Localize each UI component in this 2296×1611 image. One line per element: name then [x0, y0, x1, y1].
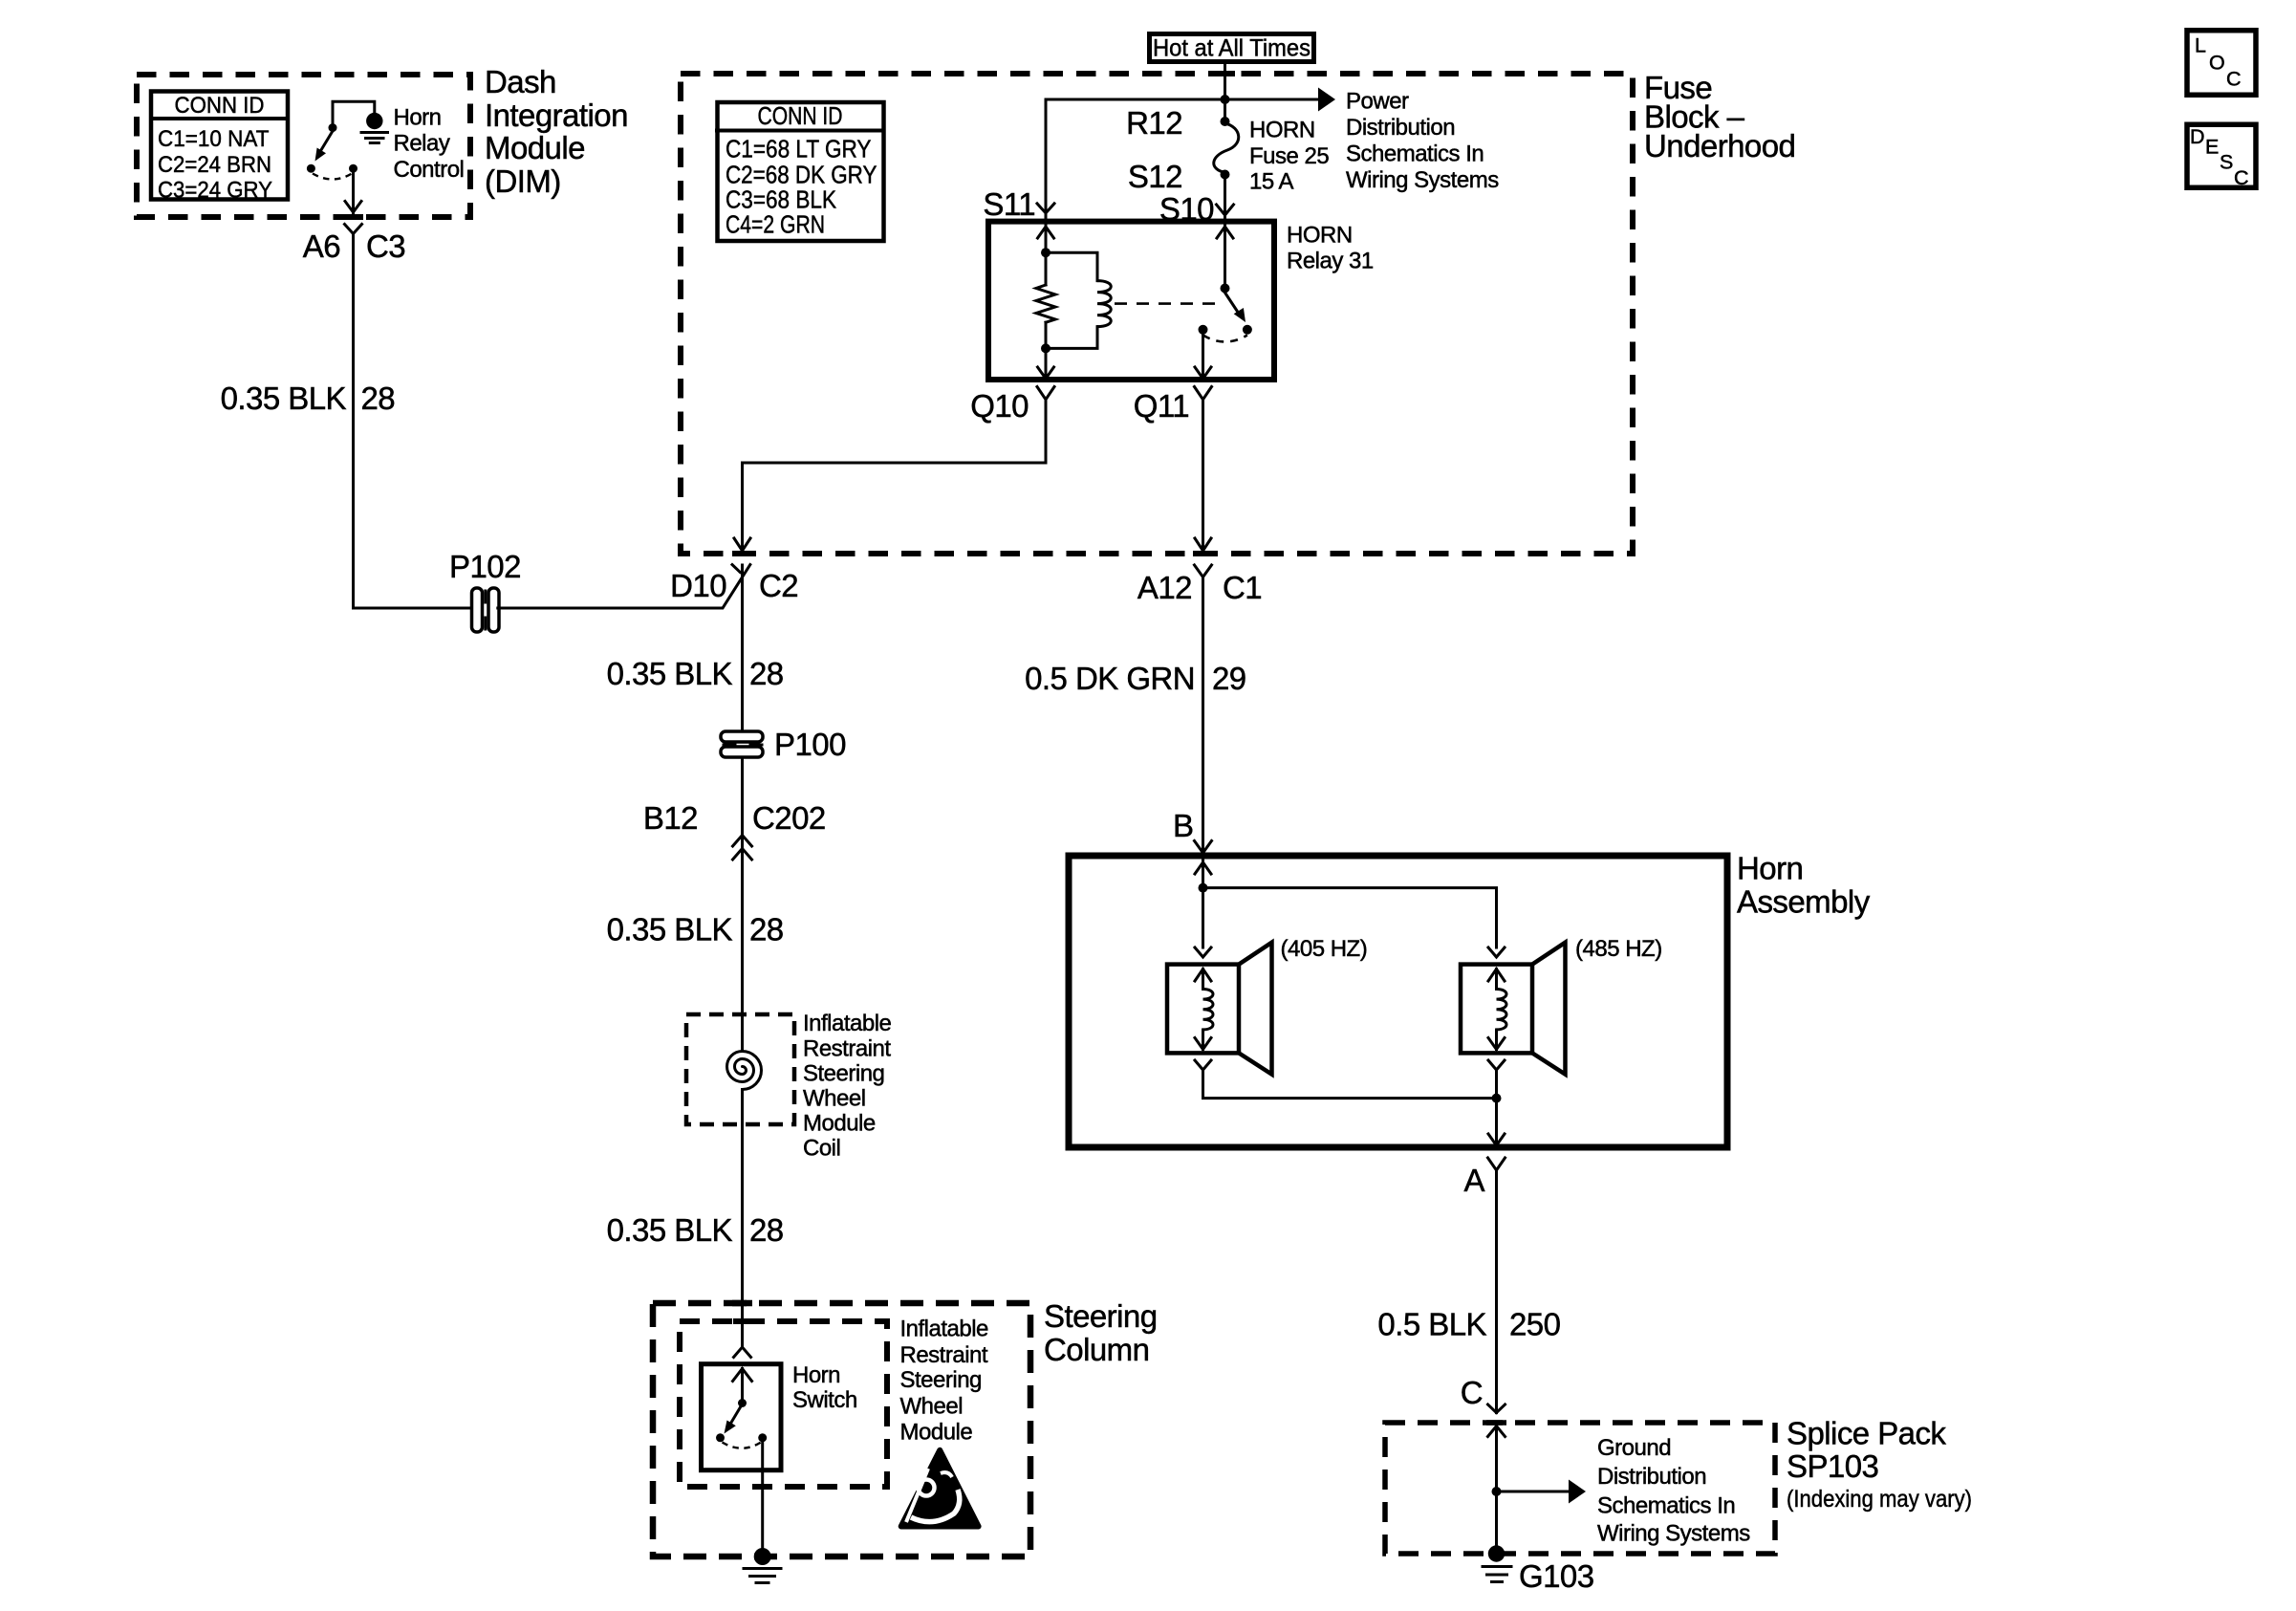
svg-text:250: 250: [1509, 1307, 1561, 1342]
svg-text:Wheel: Wheel: [803, 1086, 866, 1112]
pin label D10: [670, 568, 726, 603]
pin label A: [1464, 1163, 1485, 1198]
svg-text:Module: Module: [803, 1111, 876, 1137]
label: Horn Assembly: [1737, 851, 1871, 920]
svg-text:L: L: [2195, 34, 2206, 57]
wire: horn switch to ground G: [761, 1442, 764, 1549]
svg-text:Steering: Steering: [1044, 1298, 1158, 1334]
svg-text:R12: R12: [1126, 105, 1182, 141]
svg-text:A6: A6: [303, 229, 340, 264]
label: Dash Integration Module (DIM): [485, 64, 628, 199]
svg-text:Steering: Steering: [900, 1367, 982, 1393]
wire: arrow to Ground Distribution Schematics: [1497, 1480, 1587, 1504]
connector: left horn feed Y: [1195, 947, 1211, 957]
connector: Q10 Y symbol: [1037, 387, 1054, 400]
wire: DIM switch output to pin A6: [345, 173, 361, 213]
resistor: relay internal resistor: [1036, 285, 1055, 322]
pin label C: [1461, 1375, 1483, 1410]
svg-text:Assembly: Assembly: [1737, 884, 1871, 920]
svg-text:28: 28: [749, 656, 784, 691]
inductor: relay coil winding: [1046, 252, 1111, 348]
wire: 0.5 BLK 250 from pin A to splice pack: [1495, 1170, 1498, 1413]
label: Fuse Block - Underhood: [1644, 70, 1795, 163]
icon: SRS airbag warning triangle: [901, 1450, 979, 1527]
svg-text:Distribution: Distribution: [1346, 115, 1455, 141]
svg-text:C: C: [2234, 166, 2249, 189]
wire: relay coil branch upper: [1045, 222, 1048, 285]
svg-text:D10: D10: [670, 568, 726, 603]
svg-text:28: 28: [749, 1212, 784, 1248]
relay K31: HORN Relay 31 box: [988, 222, 1274, 380]
svg-text:D: D: [2190, 125, 2205, 148]
svg-text:Schematics In: Schematics In: [1597, 1493, 1735, 1519]
ground G103: splice pack ground: [1483, 1545, 1511, 1581]
label: P102: [449, 549, 521, 584]
svg-text:Ground: Ground: [1597, 1435, 1671, 1461]
svg-text:E: E: [2205, 136, 2219, 159]
junction: feed node at bus: [1221, 95, 1230, 104]
svg-text:Horn: Horn: [1737, 851, 1803, 886]
svg-text:HORN: HORN: [1249, 118, 1315, 143]
svg-text:0.35 BLK: 0.35 BLK: [607, 656, 733, 691]
wire: right horn return through node out pin A: [1488, 1070, 1505, 1146]
svg-text:(485 HZ): (485 HZ): [1575, 936, 1662, 962]
module box: Dash Integration Module (DIM) dashed outline: [137, 75, 470, 217]
wire label: 0.35 BLK 28 (coil to horn switch segment): [607, 1212, 784, 1248]
label: Ground Distribution Schematics In Wiring Systems: [1597, 1435, 1750, 1547]
svg-text:Column: Column: [1044, 1332, 1149, 1367]
connector: left horn return Y: [1195, 1060, 1211, 1070]
wire: dash patches at border crossings: [343, 74, 1506, 1487]
wire label: 0.35 BLK 28 (C202 to coil segment): [607, 912, 784, 947]
svg-text:C202: C202: [752, 800, 826, 836]
wire: relay common contact to Q11: [1195, 334, 1211, 379]
svg-text:B12: B12: [643, 800, 698, 836]
svg-text:C4=2 GRN: C4=2 GRN: [726, 210, 825, 239]
connector: horn assembly pin A Y symbol: [1488, 1158, 1505, 1170]
power tag: Hot at All Times: [1150, 34, 1314, 62]
wire: P100 down through C202 to steering wheel coil: [741, 757, 744, 1051]
label: P100: [774, 727, 846, 762]
svg-text:C: C: [2226, 68, 2242, 91]
connector: S11 Y symbol: [1037, 204, 1054, 213]
svg-text:SP103: SP103: [1787, 1448, 1878, 1484]
svg-text:(Indexing may vary): (Indexing may vary): [1787, 1486, 1972, 1513]
pin label B12: [643, 800, 698, 836]
svg-text:Horn: Horn: [394, 105, 442, 131]
wire label: 0.35 BLK 28 (A6 to D10 segment): [221, 381, 395, 416]
junction: horn return common node: [1492, 1094, 1502, 1103]
coil: clockspring spiral: [727, 1052, 762, 1090]
svg-text:Restraint: Restraint: [803, 1036, 891, 1062]
svg-text:Hot at All Times: Hot at All Times: [1153, 35, 1310, 62]
svg-text:C1=10 NAT: C1=10 NAT: [158, 126, 270, 152]
label: Horn Relay Control: [394, 105, 465, 183]
connector: horn assembly pin B Y symbol: [1195, 841, 1212, 854]
pin label S11: [983, 186, 1035, 222]
pin label A6: [303, 229, 340, 264]
pin label B: [1173, 808, 1193, 843]
connector: C202 double chevron symbol: [733, 836, 752, 860]
ground: DIM internal ground: [361, 113, 388, 143]
label: HORN Relay 31: [1287, 223, 1374, 274]
connector: D10 / C2 Y symbol: [732, 565, 740, 573]
wire: pin B into horn junction: [1195, 853, 1211, 947]
svg-text:Switch: Switch: [792, 1387, 857, 1413]
svg-text:0.5 BLK: 0.5 BLK: [1377, 1307, 1486, 1342]
pin label S10: [1159, 191, 1214, 227]
pin label C202: [752, 800, 826, 836]
svg-text:Module: Module: [900, 1419, 973, 1445]
label: Steering Column: [1044, 1298, 1158, 1367]
svg-text:28: 28: [749, 912, 784, 947]
svg-text:C3=24 GRY: C3=24 GRY: [158, 178, 272, 204]
switch: horn relay control driver in DIM: [307, 101, 375, 179]
svg-text:CONN ID: CONN ID: [758, 101, 843, 130]
svg-text:Coil: Coil: [803, 1136, 840, 1162]
svg-text:Inflatable: Inflatable: [803, 1011, 892, 1036]
label: Power Distribution Schematics In Wiring Systems: [1346, 89, 1499, 194]
wire: P102 to D10 junction with diagonal lead: [498, 565, 750, 608]
connector: Q11 Y symbol: [1195, 387, 1212, 400]
svg-text:15 A: 15 A: [1249, 168, 1294, 194]
connector: S10 Y symbol: [1217, 205, 1234, 215]
junction: coil top node: [1041, 248, 1051, 257]
svg-text:Splice Pack: Splice Pack: [1787, 1416, 1946, 1451]
wire: Q10 down, left and out of fuse block at D10: [734, 400, 1046, 551]
value label: HORN Fuse 25 15 A: [1249, 118, 1329, 195]
svg-text:0.5 DK GRN: 0.5 DK GRN: [1025, 661, 1195, 696]
svg-text:29: 29: [1212, 661, 1246, 696]
pin label C2: [759, 568, 798, 603]
component box: Inflatable Restraint Steering Wheel Module dashed outline: [680, 1321, 887, 1487]
value label: (405 HZ): [1281, 936, 1368, 962]
svg-text:(DIM): (DIM): [485, 163, 561, 199]
svg-text:(405 HZ): (405 HZ): [1281, 936, 1368, 962]
arrow: coil feed entering relay: [1038, 227, 1054, 238]
svg-text:S12: S12: [1128, 159, 1182, 194]
wire: relay coil return to Q10: [1038, 367, 1054, 379]
svg-text:C2=24 BRN: C2=24 BRN: [158, 152, 271, 178]
link: relay actuation dashed line: [1115, 302, 1221, 305]
svg-text:Wheel: Wheel: [900, 1394, 964, 1420]
label: G103: [1519, 1558, 1594, 1594]
svg-text:Module: Module: [485, 130, 585, 165]
pin label R12: [1126, 105, 1182, 141]
wire: Q11 down and out of fuse block at A12: [1195, 400, 1211, 551]
junction: coil bottom node: [1041, 343, 1051, 353]
table: CONN ID (fuse block connectors): [715, 101, 884, 241]
svg-text:B: B: [1173, 808, 1193, 843]
svg-text:28: 28: [361, 381, 396, 416]
svg-text:Q11: Q11: [1134, 388, 1189, 424]
svg-text:Control: Control: [394, 157, 465, 183]
svg-text:0.35 BLK: 0.35 BLK: [607, 912, 733, 947]
connector: A12 / C1 Y symbol: [1195, 565, 1212, 577]
label: Splice Pack SP103 (Indexing may vary): [1787, 1416, 1972, 1513]
connector P100: in-line connector pass-through: [721, 731, 763, 757]
value label: (485 HZ): [1575, 936, 1662, 962]
svg-text:Schematics In: Schematics In: [1346, 142, 1484, 167]
svg-text:P102: P102: [449, 549, 521, 584]
svg-text:C: C: [1461, 1375, 1483, 1410]
svg-text:Power: Power: [1346, 89, 1409, 115]
svg-text:HORN: HORN: [1287, 223, 1353, 249]
svg-text:S: S: [2220, 151, 2233, 174]
wire: split to right horn: [1203, 888, 1497, 947]
switch box: Horn Switch: [702, 1364, 782, 1470]
legend box: LOC: [2187, 31, 2256, 96]
pin label C3: [366, 229, 405, 264]
wire: bus to S11 branch and arrow to power distribution: [1046, 88, 1335, 112]
wire: pin C into splice bus: [1488, 1426, 1505, 1550]
pin label Q11: [1134, 388, 1189, 424]
svg-text:CONN ID: CONN ID: [175, 93, 265, 119]
svg-text:C1=68 LT GRY: C1=68 LT GRY: [726, 135, 872, 163]
svg-text:Underhood: Underhood: [1644, 128, 1795, 163]
svg-text:Horn: Horn: [792, 1362, 840, 1388]
pin label A12: [1137, 570, 1192, 605]
wire: resistor bottom to coil bottom node: [1045, 322, 1048, 380]
svg-text:C2: C2: [759, 568, 798, 603]
label: Inflatable Restraint Steering Wheel Module Coil: [803, 1011, 892, 1162]
pin label C1: [1223, 570, 1262, 605]
fuse F25: HORN Fuse 25 15 A: [1214, 117, 1239, 180]
svg-text:G103: G103: [1519, 1558, 1594, 1594]
connector: right horn return Y: [1488, 1060, 1505, 1070]
svg-text:Relay 31: Relay 31: [1287, 249, 1374, 274]
connector: splice pack pin C Y symbol: [1488, 1404, 1505, 1413]
connector: right horn feed Y: [1488, 947, 1505, 957]
svg-text:A: A: [1464, 1163, 1485, 1198]
wire: left horn return to common node: [1203, 1070, 1497, 1099]
horn: right horn (485 HZ): [1461, 943, 1566, 1075]
svg-text:Wiring Systems: Wiring Systems: [1346, 167, 1499, 193]
wire: bus down to relay coil S11: [1045, 99, 1048, 222]
table: CONN ID (DIM connectors): [149, 92, 288, 204]
component box: Inflatable Restraint Steering Wheel Module Coil dashed outline: [686, 1014, 794, 1124]
horn: left horn (405 HZ): [1167, 943, 1272, 1075]
wire: 0.35 BLK 28 from A6 down and right to P102: [354, 234, 473, 609]
module box: Splice Pack SP103 dashed outline: [1385, 1423, 1775, 1554]
wire: 0.35 BLK 28 coil to horn switch: [734, 1090, 751, 1358]
wire: fuse output to relay switch S10: [1224, 175, 1226, 222]
switch: horn switch contacts: [716, 1369, 767, 1448]
ground: steering column ground: [744, 1548, 781, 1583]
svg-text:C1: C1: [1223, 570, 1262, 605]
wire label: 0.5 BLK 250: [1377, 1307, 1560, 1342]
svg-text:0.35 BLK: 0.35 BLK: [607, 1212, 733, 1248]
svg-text:Inflatable: Inflatable: [900, 1317, 989, 1342]
svg-text:P100: P100: [774, 727, 846, 762]
label: Inflatable Restraint Steering Wheel Module: [900, 1317, 989, 1446]
svg-text:Integration: Integration: [485, 98, 628, 133]
svg-text:Wiring Systems: Wiring Systems: [1597, 1521, 1750, 1547]
svg-text:0.35 BLK: 0.35 BLK: [221, 381, 347, 416]
connector P102: in-line connector on horn relay control wire: [472, 588, 500, 632]
svg-text:Relay: Relay: [394, 131, 450, 157]
svg-text:Dash: Dash: [485, 64, 556, 99]
svg-text:A12: A12: [1137, 570, 1192, 605]
svg-text:O: O: [2209, 52, 2225, 75]
svg-text:C3: C3: [366, 229, 405, 264]
connector: A6 / C3 Y symbol: [345, 225, 362, 234]
wire: battery feed from Hot at All Times into fuse block: [1224, 64, 1226, 118]
junction: horn feed split node: [1199, 883, 1208, 893]
wire: 0.35 BLK 28 from C2 down to P100: [741, 565, 744, 732]
switch: relay contact arm: [1199, 222, 1252, 342]
label: Horn Switch: [792, 1362, 857, 1413]
module box: Fuse Block - Underhood dashed outline: [681, 74, 1633, 554]
svg-text:Restraint: Restraint: [900, 1342, 988, 1368]
svg-text:Steering: Steering: [803, 1061, 884, 1087]
module box: Steering Column dashed outline: [653, 1303, 1030, 1557]
module box: Horn Assembly: [1069, 856, 1727, 1147]
legend box: DESC: [2187, 124, 2256, 189]
svg-text:S11: S11: [983, 186, 1035, 222]
pin label S12: [1128, 159, 1182, 194]
svg-text:Q10: Q10: [970, 388, 1029, 424]
svg-text:Distribution: Distribution: [1597, 1464, 1706, 1490]
wire label: 0.5 DK GRN 29: [1025, 661, 1246, 696]
junction: splice node to ground distribution: [1492, 1487, 1502, 1496]
pin label Q10: [970, 388, 1029, 424]
svg-text:Fuse 25: Fuse 25: [1249, 143, 1329, 169]
wire label: 0.35 BLK 28 (C2 to P100 segment): [607, 656, 784, 691]
wire: 0.5 DK GRN 29 from A12 to horn assembly: [1202, 577, 1204, 855]
